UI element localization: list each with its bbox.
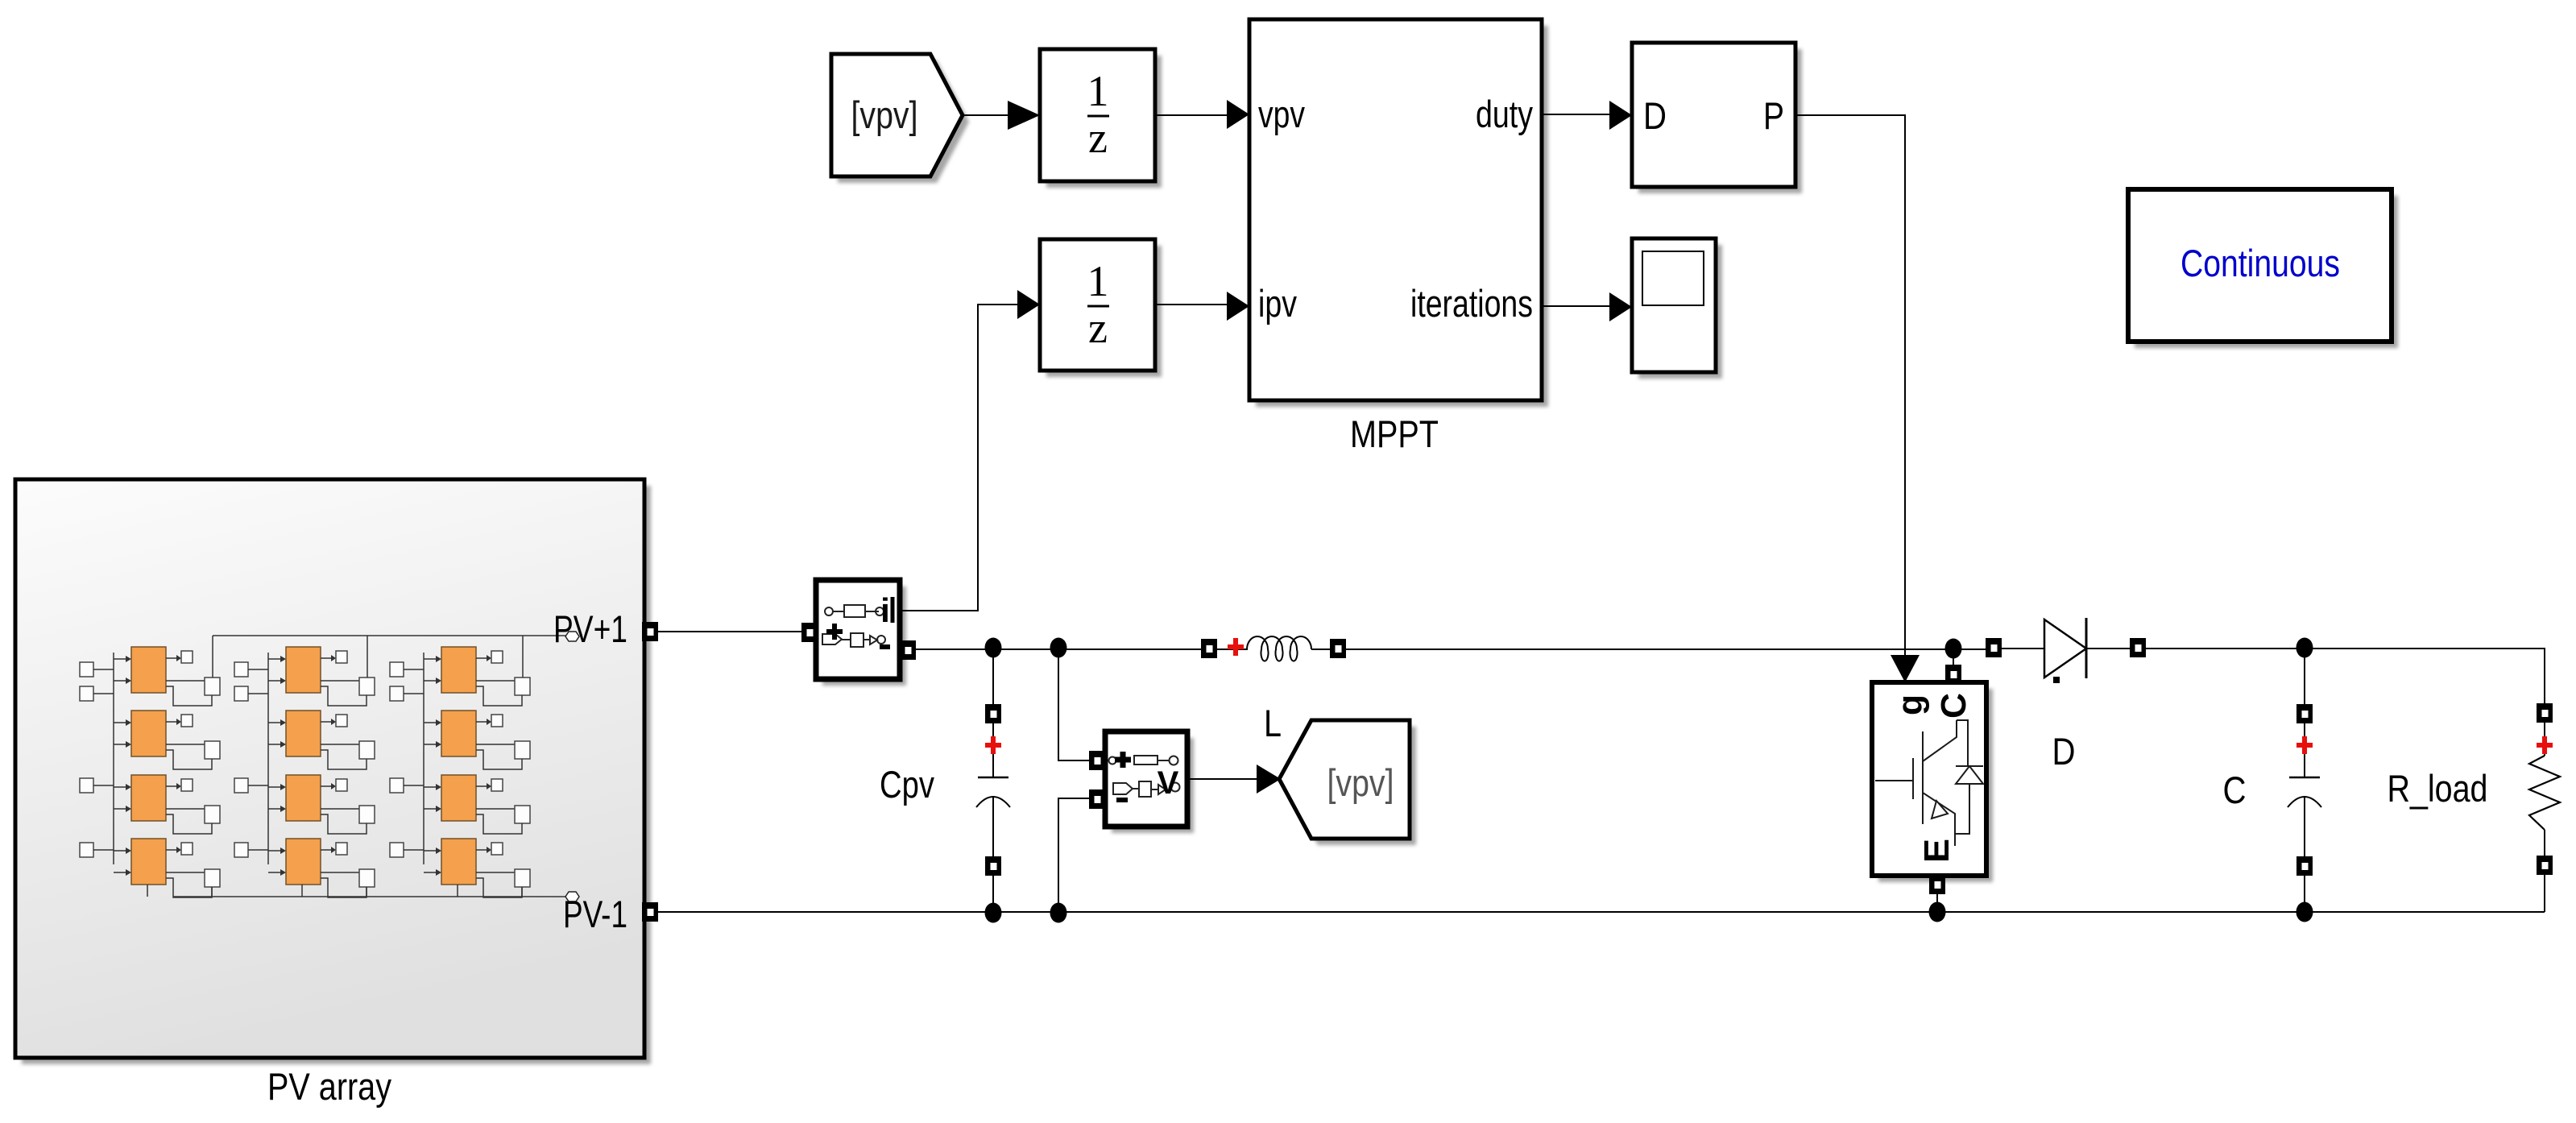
svg-text:PV+1: PV+1 xyxy=(553,607,627,650)
svg-text:C: C xyxy=(1934,693,1973,719)
svg-text:Cpv: Cpv xyxy=(880,763,934,806)
svg-text:i: i xyxy=(880,591,890,629)
svg-text:MPPT: MPPT xyxy=(1350,412,1439,455)
svg-text:P: P xyxy=(1763,94,1784,137)
svg-text:PV array: PV array xyxy=(267,1065,391,1108)
svg-text:[vpv]: [vpv] xyxy=(851,93,918,136)
svg-text:z: z xyxy=(1088,304,1108,352)
svg-text:PV-1: PV-1 xyxy=(563,893,627,935)
svg-text:E: E xyxy=(1917,839,1957,863)
svg-text:Continuous: Continuous xyxy=(2180,242,2340,284)
svg-text:1: 1 xyxy=(1087,257,1109,305)
svg-text:D: D xyxy=(1643,94,1667,137)
svg-text:iterations: iterations xyxy=(1410,282,1533,325)
svg-text:V: V xyxy=(1158,765,1179,801)
svg-text:L: L xyxy=(1264,702,1282,744)
svg-text:vpv: vpv xyxy=(1258,93,1305,135)
svg-text:1: 1 xyxy=(1087,67,1109,115)
svg-text:[vpv]: [vpv] xyxy=(1327,761,1394,804)
svg-text:g: g xyxy=(1891,694,1930,715)
svg-text:R_load: R_load xyxy=(2388,767,2488,810)
svg-text:D: D xyxy=(2052,730,2076,773)
svg-text:z: z xyxy=(1088,114,1108,162)
svg-text:ipv: ipv xyxy=(1258,282,1297,325)
svg-text:duty: duty xyxy=(1476,93,1533,135)
svg-text:C: C xyxy=(2223,769,2247,811)
